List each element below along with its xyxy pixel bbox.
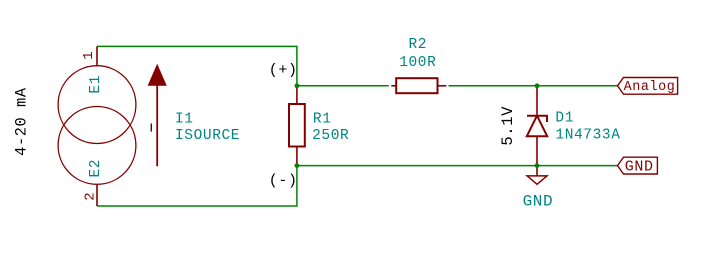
wire bottom rail to GND flag [297,165,618,167]
svg-text:I1: I1 [175,111,194,127]
minus sign of source [150,124,152,132]
ground stub wire [536,166,538,176]
global label GND [618,157,658,175]
current source I1 pin 2 [96,184,98,206]
svg-text:R1: R1 [313,111,332,127]
resistor R1 pin top [296,86,298,104]
svg-text:GND: GND [625,158,654,175]
svg-text:ISOURCE: ISOURCE [175,128,240,144]
svg-text:(+): (+) [269,62,298,79]
node D1 top junction [535,83,540,88]
svg-text:100R: 100R [399,55,436,71]
node (-) junction [295,163,300,168]
zener diode D1 triangle [527,116,547,137]
resistor R1 body [289,104,305,147]
svg-text:R2: R2 [408,37,427,53]
node (+) junction [295,83,300,88]
zener diode D1 pin bottom [536,136,538,165]
resistor R2 pin right [438,85,447,87]
resistor R2 body [396,78,437,93]
current source circle E1 [58,66,136,144]
zener diode D1 cathode bar [527,116,547,122]
zener diode D1 pin top [536,86,538,116]
ground symbol [527,176,547,184]
node D1 bottom junction [535,163,540,168]
svg-text:(-): (-) [269,172,298,189]
svg-text:E2: E2 [88,159,104,178]
current source circle E2 [58,106,136,184]
wire top rail [97,46,297,85]
svg-text:GND: GND [523,193,554,211]
svg-text:250R: 250R [312,128,349,144]
svg-text:1N4733A: 1N4733A [555,128,620,144]
resistor R2 pin left [391,85,396,87]
svg-text:Analog: Analog [624,80,676,95]
svg-text:4-20 mA: 4-20 mA [13,87,31,156]
svg-text:E1: E1 [88,75,104,94]
global label Analog [618,78,678,95]
wire bottom return [97,166,297,206]
current source I1 pin 1 [96,46,98,65]
wire R2 to Analog flag [449,85,618,87]
svg-text:1: 1 [81,51,97,60]
svg-text:2: 2 [82,192,98,201]
svg-text:5.1V: 5.1V [499,106,517,146]
svg-text:D1: D1 [555,111,574,127]
current direction arrow [148,65,166,166]
resistor R1 pin bottom [296,147,298,166]
wire (+) rail to R2 [297,85,389,87]
